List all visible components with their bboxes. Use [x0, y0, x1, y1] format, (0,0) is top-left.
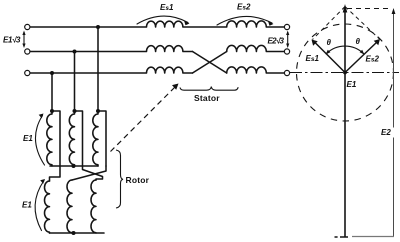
- svg-text:Es2: Es2: [237, 3, 251, 12]
- svg-text:θ: θ: [356, 37, 361, 46]
- svg-text:Es1: Es1: [306, 54, 320, 63]
- svg-text:Rotor: Rotor: [126, 175, 150, 185]
- svg-text:Stator: Stator: [194, 93, 220, 103]
- svg-text:Es1: Es1: [160, 3, 174, 12]
- svg-text:θ: θ: [327, 38, 332, 47]
- svg-text:E1: E1: [347, 80, 357, 89]
- svg-text:E1: E1: [22, 201, 32, 210]
- svg-text:E1√3: E1√3: [3, 36, 21, 45]
- svg-text:Es2: Es2: [366, 55, 380, 64]
- svg-text:E2: E2: [381, 128, 391, 137]
- svg-text:E1: E1: [23, 134, 33, 143]
- svg-text:E2√3: E2√3: [268, 37, 285, 46]
